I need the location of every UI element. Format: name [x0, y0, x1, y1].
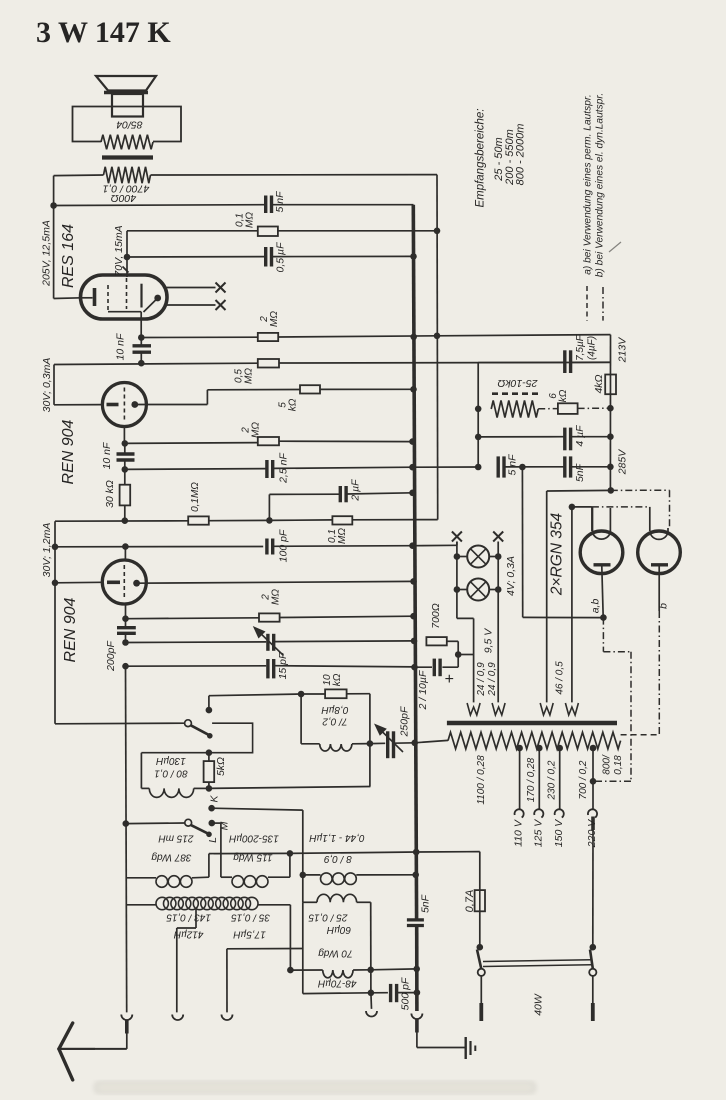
tap 110V	[516, 745, 523, 752]
svg-text:a,b: a,b	[590, 599, 602, 614]
junction dot y521	[122, 517, 129, 524]
switch1 loop rectangle	[209, 723, 252, 753]
ground symbol	[465, 1037, 467, 1059]
resistor 5k vertical	[204, 761, 215, 782]
tube1 anode bar	[594, 563, 611, 566]
wire 2M to bus y616	[280, 616, 414, 617]
junction dot bus y389	[410, 386, 417, 393]
junction dot bus y301? none wire y694 left	[209, 694, 301, 696]
switch2 blade	[191, 825, 209, 834]
tap 220V	[590, 745, 597, 752]
right net left vertical	[477, 363, 479, 467]
wire 250pF to bus	[394, 742, 415, 744]
REN904a grid dashed	[123, 388, 125, 422]
capacitor 0,5uF top	[264, 247, 267, 267]
REN904b grid bottom lead	[125, 604, 127, 619]
wire y852 to fuse	[416, 851, 480, 853]
rectifier tube 2	[638, 531, 681, 574]
coil130 loop left vertical	[140, 753, 142, 789]
wire 100pF to bus	[273, 545, 412, 548]
tube2 anode stem	[658, 566, 660, 611]
heater drop wire 2	[571, 507, 573, 703]
junction dot x303 y875	[300, 872, 307, 879]
wire 2M to bus y441	[279, 440, 412, 442]
capacitor 10nF second	[117, 452, 135, 455]
svg-text:700 / 0,2: 700 / 0,2	[578, 760, 589, 799]
svg-text:MΩ: MΩ	[251, 422, 262, 438]
capacitor 5nF left	[497, 456, 500, 477]
junction dot x55 y547	[52, 544, 59, 551]
REN904b cathode bar	[107, 580, 120, 584]
capacitor 500pF	[389, 984, 392, 1002]
tube2 right lead	[667, 528, 669, 532]
junction dot anode1	[600, 614, 607, 621]
contact M dot	[209, 820, 216, 827]
svg-text:70V, 15mA: 70V, 15mA	[113, 225, 125, 276]
switch2 contact circle	[185, 819, 192, 826]
5k leads	[208, 753, 210, 761]
tap 125V hook	[534, 809, 543, 817]
resistor 2M y441	[258, 437, 279, 445]
output transformer secondary box	[73, 107, 182, 142]
junction dot grid top	[122, 543, 129, 550]
wire 0,5uF to bus	[272, 255, 414, 257]
wire 5k to bus	[320, 388, 414, 390]
svg-text:285V: 285V	[617, 449, 629, 476]
svg-text:40W: 40W	[533, 993, 545, 1016]
switch pole1 dot	[477, 944, 484, 951]
wire y507 to tube1	[572, 506, 592, 508]
svg-text:800/: 800/	[602, 754, 613, 775]
svg-text:9,5 V: 9,5 V	[483, 628, 495, 654]
svg-text:5kΩ: 5kΩ	[215, 757, 227, 776]
tube2 left lead	[649, 507, 651, 531]
switch pole2 contact	[589, 969, 596, 976]
svg-text:800 - 2000m: 800 - 2000m	[514, 124, 526, 186]
antenna wire down	[126, 1034, 128, 1049]
svg-text:150 V: 150 V	[553, 819, 565, 847]
wire y743 to 250pF	[370, 742, 385, 744]
wire 2M to bus	[278, 336, 437, 337]
coil 60uH	[317, 894, 357, 902]
X mark upper	[216, 283, 226, 293]
svg-text:30 kΩ: 30 kΩ	[104, 480, 116, 508]
svg-text:L: L	[207, 837, 219, 843]
dash-dot y490 to x670	[611, 489, 670, 491]
svg-text:kΩ: kΩ	[332, 673, 343, 686]
junction dot bus y969	[413, 966, 420, 973]
resistor 30k	[120, 485, 131, 506]
svg-text:125 V: 125 V	[533, 819, 545, 847]
junction dot x437 y336	[434, 333, 441, 340]
wire y853 to bus	[290, 852, 416, 853]
right net right vertical	[609, 335, 611, 491]
svg-text:b) bei Verwendung eines el. dy: b) bei Verwendung eines el. dyn.Lautspr.	[595, 93, 606, 277]
wire y969 to bus	[371, 968, 417, 971]
tube REN904a envelope	[102, 383, 146, 427]
wire y617	[523, 616, 604, 618]
svg-text:0,1MΩ: 0,1MΩ	[190, 482, 201, 512]
wire 500pF to bus	[397, 992, 417, 994]
svg-text:85/04: 85/04	[116, 119, 142, 131]
svg-text:4V; 0,3A: 4V; 0,3A	[505, 556, 517, 596]
wire y469	[125, 468, 266, 471]
wire y335 right	[437, 335, 611, 336]
250pF arrow	[378, 727, 404, 752]
corner to wire y521	[54, 520, 56, 522]
coilC right lead	[356, 874, 415, 876]
antenna plug pin	[125, 1021, 129, 1034]
wire bus to mains zigzag	[415, 740, 448, 742]
svg-text:30V; 0,3mA: 30V; 0,3mA	[41, 358, 53, 413]
coil 7/0,2 0,8uH	[320, 744, 352, 751]
junction dot bus y875	[412, 872, 419, 879]
wire y642	[126, 641, 267, 644]
wire to RES164 cathode	[54, 297, 81, 300]
svg-text:5 nF: 5 nF	[274, 191, 286, 213]
dash-dot through 6k	[538, 408, 558, 410]
svg-text:60µH: 60µH	[326, 924, 351, 935]
coilA right lead	[192, 876, 209, 879]
RES164 grid1 lead	[108, 311, 141, 313]
RES164 cathode lead	[81, 297, 93, 299]
mains primary zigzag	[448, 732, 621, 749]
tap 150V	[556, 745, 563, 752]
antenna rail vertical x126	[126, 666, 127, 1012]
svg-text:MΩ: MΩ	[337, 528, 348, 544]
coilB left lead	[221, 876, 232, 878]
tap 110V hook	[515, 809, 524, 817]
resistor 10k	[325, 689, 347, 698]
legend b sample dashdot	[602, 287, 604, 321]
junction dot x437 y231	[434, 228, 441, 235]
mains core bar	[447, 721, 617, 725]
antenna terminal hook	[121, 1015, 132, 1021]
svg-text:5 nF: 5 nF	[507, 454, 519, 476]
mains pin 2	[592, 976, 594, 1003]
wire 2,5nF to bus	[273, 467, 412, 468]
svg-text:(4µF): (4µF)	[587, 336, 598, 360]
tap 220V hook	[588, 809, 597, 817]
wire left vertical x54 (205V rail)	[53, 176, 55, 299]
wire right vertical x437	[436, 175, 439, 520]
scan smudge bottom	[95, 1082, 535, 1093]
svg-text:5nF: 5nF	[420, 894, 432, 913]
wire RES164 to X lower	[167, 304, 216, 306]
svg-text:2 / 10µF: 2 / 10µF	[417, 670, 429, 710]
svg-text:MΩ: MΩ	[271, 589, 282, 605]
svg-text:170 / 0,28: 170 / 0,28	[526, 757, 537, 802]
svg-text:135-200µH: 135-200µH	[228, 833, 278, 844]
junction dot bus y641	[411, 638, 418, 645]
vertical riser x269	[268, 494, 270, 520]
wire y993	[303, 992, 371, 995]
wire K to coils	[212, 808, 303, 810]
junction dot y694 left	[298, 691, 305, 698]
junction dot bus y337	[410, 334, 417, 341]
switch pole1 contact	[478, 969, 485, 976]
wire y363 to right network	[279, 361, 611, 364]
wire 220V to switch	[592, 830, 594, 947]
junction dot y363	[138, 360, 145, 367]
capacitor 2/10uF electrolytic	[433, 659, 436, 677]
resistor 0,1M right	[332, 516, 352, 524]
wire y824 to switch2	[126, 822, 185, 825]
capacitor 2,5nF	[265, 460, 268, 478]
switch1 contact circle	[185, 720, 192, 727]
REN904b anode dot	[133, 580, 140, 587]
junction dot right net y408	[607, 405, 614, 412]
svg-text:8 / 0,9: 8 / 0,9	[324, 853, 352, 864]
svg-text:400Ω: 400Ω	[111, 192, 137, 204]
svg-text:kΩ: kΩ	[288, 398, 299, 411]
switch1 pole dot	[206, 707, 213, 714]
svg-text:REN 904: REN 904	[60, 419, 77, 484]
wire 15pF to bus	[275, 666, 415, 667]
svg-text:205V, 12,5mA: 205V, 12,5mA	[41, 220, 53, 287]
coilD box	[302, 902, 304, 993]
junction dot x478 y467	[475, 464, 482, 471]
terminal V3 hook	[222, 1015, 233, 1021]
junction dot y443	[122, 440, 129, 447]
svg-text:24 / 0,9: 24 / 0,9	[476, 662, 487, 697]
svg-text:70 Wdg: 70 Wdg	[318, 948, 353, 959]
wire y363 left	[54, 363, 258, 364]
loop7/02 left vertical	[300, 694, 302, 744]
resistor 2M y617	[259, 613, 280, 621]
dash-dot 6k to vert	[578, 407, 611, 409]
junction dots lamp1	[454, 553, 461, 560]
svg-text:48-70µH: 48-70µH	[317, 977, 356, 988]
rectifier tube 1	[580, 531, 623, 574]
wire y362 through 7,5uF	[478, 361, 564, 363]
coil130 bottom connections	[141, 787, 149, 789]
svg-text:250pF: 250pF	[399, 706, 411, 737]
svg-text:RES 164: RES 164	[60, 224, 77, 288]
junction dot coilE left	[287, 967, 294, 974]
wire y949	[227, 948, 303, 950]
svg-text:0,18: 0,18	[613, 755, 624, 775]
wire y231 grid2 line	[127, 230, 258, 232]
junction dot y788	[206, 785, 213, 792]
tube2 filament arc	[650, 532, 668, 540]
main HT bus vertical	[413, 205, 416, 920]
junction dot y337	[138, 334, 145, 341]
switch coupling bar	[483, 960, 591, 962]
wire 10nF leads	[140, 338, 142, 346]
svg-text:24 / 0,9: 24 / 0,9	[487, 662, 498, 697]
svg-text:REN 904: REN 904	[62, 597, 79, 662]
svg-text:kΩ: kΩ	[558, 389, 569, 402]
tube1 top leads	[592, 507, 594, 533]
anode wire corner up	[206, 390, 208, 405]
wire y521 mid	[209, 519, 270, 521]
X mark lamp right	[493, 532, 503, 542]
coilC left lead	[303, 874, 321, 876]
tap 125V	[536, 745, 543, 752]
wire y231 to x437	[278, 230, 437, 232]
junction dot x370 y743	[367, 740, 374, 747]
junction dot x371 y993	[368, 990, 375, 997]
coil 215mH	[156, 876, 168, 888]
svg-text:35 / 0,15: 35 / 0,15	[231, 911, 270, 922]
filament winding arrow 46 left	[540, 703, 553, 715]
svg-text:143 / 0,15: 143 / 0,15	[166, 911, 211, 922]
wire fuse bottom	[479, 911, 481, 947]
svg-text:1100 / 0,28: 1100 / 0,28	[476, 755, 487, 805]
junction dot y469	[122, 466, 129, 473]
svg-text:0,44 - 1,1µH: 0,44 - 1,1µH	[309, 832, 365, 843]
wire to REN904a cathode	[54, 404, 103, 406]
wire y257	[127, 256, 265, 258]
capacitor 5nF right	[563, 456, 566, 477]
svg-text:2×RGN 354: 2×RGN 354	[549, 512, 566, 596]
svg-text:46 / 0,5: 46 / 0,5	[555, 661, 566, 695]
long coil 412uH	[156, 897, 168, 909]
switch pole2 dot	[590, 944, 597, 951]
junction dot bus y743	[411, 740, 418, 747]
junction dot bus y616	[410, 613, 417, 620]
dash-dot tube1 anode path	[602, 618, 604, 652]
svg-text:25 / 0,15: 25 / 0,15	[308, 911, 348, 922]
junction dot x572 y507	[569, 504, 576, 511]
terminal V2 riser	[176, 928, 178, 1012]
RES164 grid2 top lead	[126, 231, 128, 277]
dash-dot tube2 anode down	[658, 611, 660, 735]
wire left vertical x55 (30V 1,2mA)	[54, 521, 56, 724]
filament winding arrow right	[492, 703, 505, 715]
svg-text:80 / 0,1: 80 / 0,1	[154, 768, 187, 779]
junction dot coilE right	[367, 967, 374, 974]
RES164 grid2 dashed	[126, 278, 128, 309]
wire to long coil	[127, 904, 156, 906]
junction dot y490	[608, 487, 615, 494]
loudspeaker cone	[96, 76, 156, 91]
resistor 0,1M top	[258, 227, 278, 237]
junction dot bus y581	[410, 578, 417, 585]
wire 10k right + loop right side	[301, 693, 325, 695]
mains pin 1	[480, 976, 482, 1003]
filament winding arrow left	[467, 703, 480, 715]
svg-text:3 W 147 K: 3 W 147 K	[36, 16, 171, 49]
wire RES164 to X upper	[165, 287, 216, 289]
svg-text:Empfangsbereiche:: Empfangsbereiche:	[475, 108, 487, 207]
junction dot x55 y583	[52, 580, 59, 587]
tap 150V hook	[555, 809, 564, 817]
contact K dot	[208, 805, 215, 812]
long coil right lead	[258, 904, 290, 906]
tube1 anode stem	[602, 566, 603, 618]
resistor 4k	[605, 375, 616, 395]
junction dot bus y441	[409, 438, 416, 445]
REN904a cathode bar	[107, 403, 119, 407]
junction dot left net y409	[475, 406, 482, 413]
switch1 blade	[191, 725, 210, 735]
svg-text:30V; 1,2mA: 30V; 1,2mA	[41, 523, 53, 578]
RES164 filament diagonal	[144, 298, 158, 312]
wire to ground	[416, 1033, 418, 1048]
wire 10nF2 leads	[124, 443, 126, 454]
variable resistor 25-10k zigzag	[491, 401, 538, 418]
wire 5nF to right vert	[571, 466, 611, 468]
wire fuse top	[479, 852, 481, 891]
dial lamp 1	[467, 546, 489, 568]
svg-text:110 V: 110 V	[513, 819, 525, 847]
loudspeaker magnet	[112, 94, 143, 117]
wire to corner x437	[352, 519, 437, 521]
junction dot y642	[122, 639, 129, 646]
switch pole2 blade	[590, 950, 593, 969]
coil 48-70uH	[290, 969, 322, 971]
tube1 filament arc	[593, 532, 611, 540]
svg-text:a) bei Verwendung eines perm.: a) bei Verwendung eines perm. Lautspr.	[583, 94, 594, 274]
capacitor 200pF	[117, 626, 136, 629]
lamp rail right	[497, 542, 499, 703]
bus plug pin	[415, 1020, 419, 1033]
svg-text:215 mH: 215 mH	[158, 833, 195, 844]
terminal V3 riser	[226, 949, 228, 1013]
junction dot y753	[206, 749, 213, 756]
wire y205 to 5nF	[54, 204, 266, 207]
wire cap to corner	[442, 666, 458, 668]
tube2 anode bar	[651, 563, 668, 566]
junction dots y437	[475, 434, 482, 441]
wire trimmer to bus	[275, 640, 414, 643]
dash-dot x670 down	[669, 490, 671, 528]
capacitor 100pF	[265, 539, 268, 555]
svg-text:25-10kΩ: 25-10kΩ	[497, 377, 538, 389]
resistor 0,1M mid	[188, 516, 209, 524]
junction dot 220V dashed	[590, 778, 597, 785]
wire left vertical x54 (30V 0,3mA)	[53, 365, 55, 405]
wire 200pF leads	[125, 619, 127, 628]
REN904a grid lead down	[123, 427, 125, 444]
switch1 pole lead	[208, 696, 210, 710]
svg-text:b: b	[658, 603, 670, 609]
capacitor 10nF plates	[133, 344, 152, 347]
wire y443	[125, 442, 258, 445]
junction dot bus y852	[413, 849, 420, 856]
svg-text:200pF: 200pF	[105, 641, 117, 672]
junction dot bus y546	[409, 542, 416, 549]
wire y788 to x370	[209, 787, 371, 789]
wire loop bottom	[301, 743, 320, 745]
tube RES164 envelope	[81, 275, 168, 319]
capacitor 5nF top	[264, 196, 267, 214]
wire 30k leads	[124, 469, 126, 484]
220V plug pin	[591, 817, 595, 831]
svg-text:500 pF: 500 pF	[400, 977, 412, 1010]
X mark lower	[216, 300, 226, 310]
primary resistor 4700/0,1	[104, 167, 151, 183]
loudspeaker gasket bar	[104, 91, 148, 95]
coilD left vertical x303	[302, 810, 304, 902]
RES164 filament dot	[154, 295, 161, 302]
dashes over 25-10k	[492, 392, 541, 395]
RES164 grid1 dashed	[107, 285, 109, 312]
svg-text:10 nF: 10 nF	[115, 333, 127, 360]
svg-text:412µH: 412µH	[173, 928, 203, 939]
svg-text:230 / 0,2: 230 / 0,2	[547, 760, 558, 800]
svg-text:130µH: 130µH	[155, 755, 185, 766]
variable capacitor 250pF	[386, 731, 389, 758]
wire y547	[55, 546, 263, 548]
capacitor 4uF	[563, 428, 566, 451]
coil 0,44-1,1uH	[321, 873, 333, 885]
legend a sample dashed	[586, 286, 588, 321]
junction dot 205V	[50, 202, 57, 209]
wire y854	[209, 852, 290, 854]
